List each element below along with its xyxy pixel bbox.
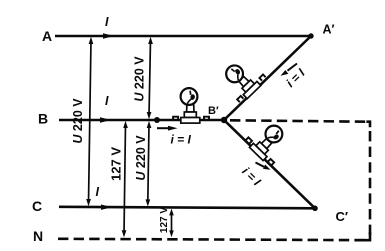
svg-text:B: B [38,111,48,127]
label 127 V (C-N) [159,207,170,233]
phase line B [59,119,224,122]
wire B' to A' [224,36,311,120]
svg-text:I: I [105,15,109,29]
label i = I (wire B'-C') [239,164,264,189]
current arrow on line A [103,33,114,38]
dashed right-side wire [369,131,372,240]
voltage arrow U A-C [89,40,92,203]
label U 220 V (A-B) [132,56,146,102]
lamp L1 on line B [173,88,209,123]
svg-text:U 220 V: U 220 V [71,98,85,144]
phase line A [55,35,311,38]
dashed return wire from B' [230,120,367,121]
svg-text:C′: C′ [336,209,349,224]
node B' [221,117,227,123]
lamp L2 on wire B'-A' [217,54,267,104]
svg-text:A′: A′ [323,23,335,37]
label i = I (wire B'-A') [283,65,308,90]
voltage arrow U B-C [148,124,149,203]
svg-text:I: I [105,94,109,108]
label U 220 V (A-C) [71,98,85,144]
svg-text:i = I: i = I [171,133,192,147]
voltage arrow 127 V (C-N) [171,212,173,234]
wire B' to C' [224,120,315,208]
neutral line N (dashed) [58,239,370,240]
branch current arrow (wire B'-A') [288,64,298,71]
svg-text:U 220 V: U 220 V [134,135,148,181]
node A' [308,33,313,38]
phase line C [59,207,315,209]
branch current arrow (line B lamp) [157,127,170,129]
svg-text:A: A [42,28,52,44]
junction node on line B [154,117,160,123]
lamp L3 on wire B'-C' [244,117,294,167]
svg-text:U 220 V: U 220 V [132,56,146,102]
label U 220 V (B-C) [134,135,148,181]
svg-text:B′: B′ [208,105,219,117]
voltage arrow 127 V (B-N) [124,124,126,234]
voltage arrow U A-B [149,40,151,116]
svg-text:127 V: 127 V [108,147,123,181]
branch current arrow (wire B'-C') [256,163,265,167]
svg-text:C: C [32,198,42,214]
dashed corner top-right [366,122,370,128]
current arrow on line B [100,117,111,122]
svg-text:I: I [96,185,100,199]
svg-text:N: N [33,228,43,244]
dashed corner bottom-right [355,232,371,240]
current arrow on line C [101,205,112,210]
node C' [312,206,318,212]
svg-text:127 V: 127 V [159,207,170,233]
label 127 V (B-N) [108,147,123,181]
